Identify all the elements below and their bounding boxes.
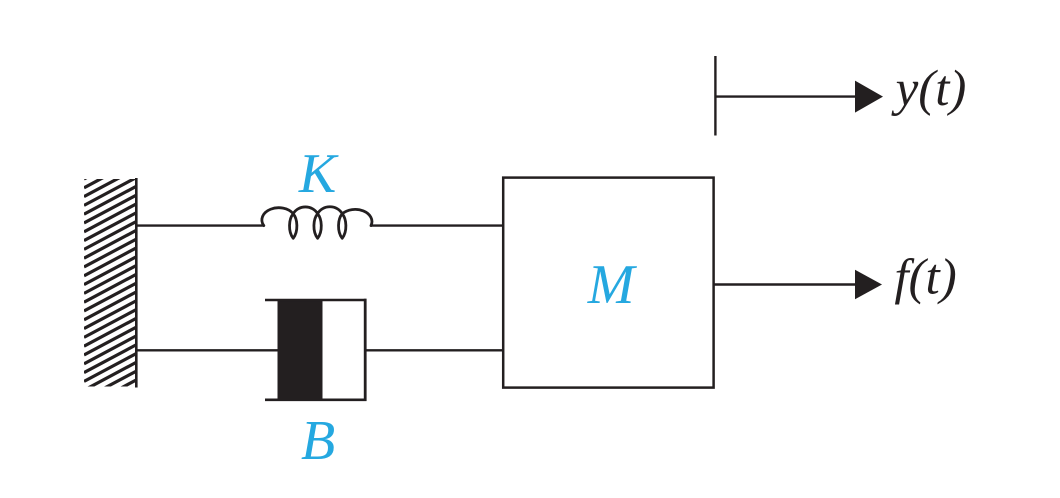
svg-text:K: K (298, 143, 339, 205)
svg-text:B: B (301, 410, 335, 472)
svg-text:M: M (587, 254, 638, 316)
svg-text:y(t): y(t) (891, 61, 967, 117)
svg-text:f(t): f(t) (894, 249, 956, 305)
